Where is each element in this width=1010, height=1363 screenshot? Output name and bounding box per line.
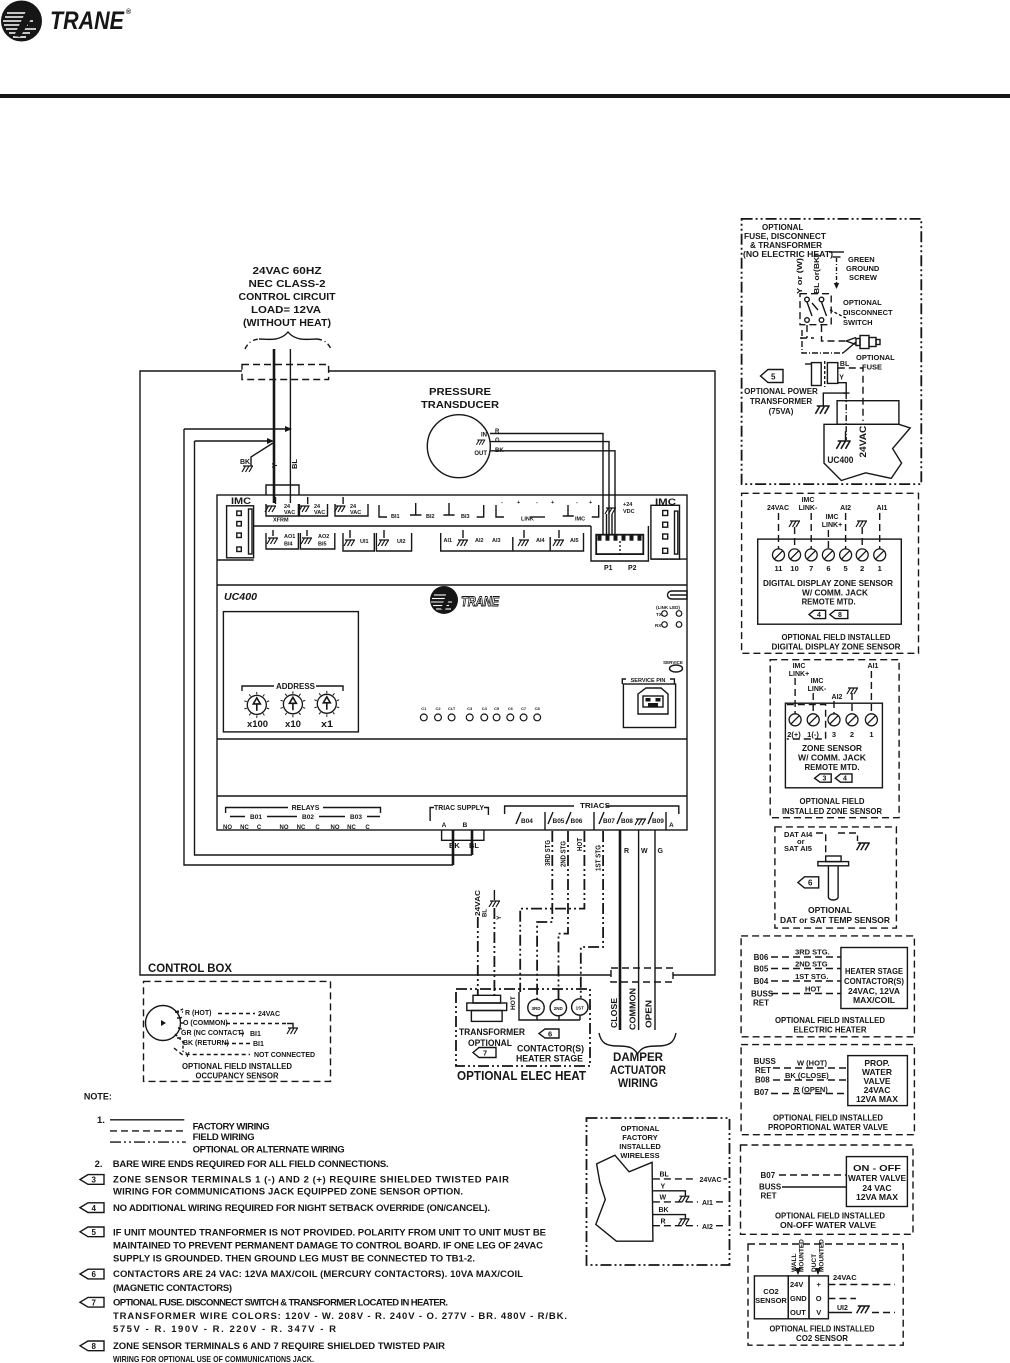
svg-text:G: G xyxy=(658,848,664,855)
svg-text:6: 6 xyxy=(548,1030,552,1039)
svg-text:Y: Y xyxy=(185,1052,190,1059)
svg-text:+: + xyxy=(589,500,592,506)
trane logo xyxy=(1,1,132,42)
svg-text:HOT: HOT xyxy=(805,985,821,994)
svg-text:LINK-: LINK- xyxy=(808,686,827,693)
svg-text:7: 7 xyxy=(809,564,813,573)
svg-text:XFRM: XFRM xyxy=(273,518,289,524)
wire BL to 24VAC xyxy=(653,1178,697,1180)
box2: digital display zone sensor xyxy=(742,493,919,653)
svg-text:RELAYS: RELAYS xyxy=(292,805,320,812)
svg-text:10: 10 xyxy=(790,564,798,573)
svg-text:REMOTE MTD.: REMOTE MTD. xyxy=(802,597,856,607)
svg-text:8: 8 xyxy=(92,1342,97,1351)
control box outline xyxy=(140,371,715,975)
svg-text:7: 7 xyxy=(92,1298,97,1307)
wire BK to gnd xyxy=(653,1215,686,1219)
svg-text:ZONE SENSOR: ZONE SENSOR xyxy=(802,743,862,753)
svg-text:NC: NC xyxy=(347,825,356,831)
LINK IMC group xyxy=(496,505,504,517)
svg-text:NC: NC xyxy=(297,825,306,831)
svg-text:NO: NO xyxy=(223,825,232,831)
svg-text:DISCONNECT: DISCONNECT xyxy=(843,308,893,317)
svg-text:P1: P1 xyxy=(604,565,613,572)
svg-text:6: 6 xyxy=(826,564,830,573)
svg-text:AI2: AI2 xyxy=(475,538,484,544)
svg-text:TX: TX xyxy=(656,612,662,617)
svg-text:BARE WIRE ENDS REQUIRED FO: BARE WIRE ENDS REQUIRED FOR ALL FIELD CO… xyxy=(113,1159,389,1170)
svg-text:TRANSDUCER: TRANSDUCER xyxy=(421,399,499,411)
brace under feed text xyxy=(259,332,317,339)
wire vert x194.5 xyxy=(195,441,473,855)
svg-text:INSTALLED: INSTALLED xyxy=(619,1142,661,1151)
svg-text:B08: B08 xyxy=(621,818,633,825)
svg-text:IN: IN xyxy=(481,433,487,439)
svg-text:C6: C6 xyxy=(508,706,514,711)
svg-text:+: + xyxy=(817,1280,822,1289)
svg-text:BK (CLOSE): BK (CLOSE) xyxy=(785,1071,829,1080)
optional fuse xyxy=(846,338,856,345)
feed dashed junction box xyxy=(242,365,329,380)
flag 7 xyxy=(80,1297,104,1307)
svg-text:C4: C4 xyxy=(482,706,488,711)
status LEDs xyxy=(420,706,540,721)
svg-text:-: - xyxy=(501,500,503,506)
svg-text:24V: 24V xyxy=(790,1280,803,1289)
wireless box xyxy=(587,1118,730,1265)
svg-text:R: R xyxy=(661,1219,666,1226)
svg-text:FUSE: FUSE xyxy=(862,363,882,372)
svg-text:MAX/COIL: MAX/COIL xyxy=(853,995,895,1005)
svg-text:GR (NC CONTACT): GR (NC CONTACT) xyxy=(181,1030,244,1037)
svg-text:DIGITAL DISPLAY ZONE SENSOR: DIGITAL DISPLAY ZONE SENSOR xyxy=(772,642,901,652)
svg-text:HOT: HOT xyxy=(510,996,517,1010)
svg-text:12VA MAX: 12VA MAX xyxy=(856,1192,898,1202)
svg-text:IF UNIT MOUNTED TRANFORMER: IF UNIT MOUNTED TRANFORMER IS NOT PROVID… xyxy=(113,1227,546,1238)
svg-text:BL: BL xyxy=(469,841,479,850)
svg-text:2ND STG: 2ND STG xyxy=(795,960,828,969)
svg-text:(LINK LED): (LINK LED) xyxy=(656,605,680,610)
wire R to AI2 xyxy=(653,1225,698,1227)
header bar xyxy=(0,94,1010,98)
svg-text:OUT: OUT xyxy=(790,1308,806,1317)
svg-text:OPTIONAL FIELD INSTALLED: OPTIONAL FIELD INSTALLED xyxy=(775,1015,885,1025)
transducer wires to P1 xyxy=(490,434,603,535)
svg-text:NOT CONNECTED: NOT CONNECTED xyxy=(254,1052,315,1059)
svg-text:UI2: UI2 xyxy=(397,539,406,545)
probe xyxy=(826,856,841,862)
svg-text:BL or(BK): BL or(BK) xyxy=(814,254,821,294)
svg-text:ZONE SENSOR TERMINALS 1 (-: ZONE SENSOR TERMINALS 1 (-) AND 2 (+) RE… xyxy=(113,1174,509,1185)
svg-text:C: C xyxy=(365,825,370,831)
svg-text:24VAC 60HZ: 24VAC 60HZ xyxy=(253,265,323,277)
svg-text:BI3: BI3 xyxy=(461,514,470,520)
svg-text:SCREW: SCREW xyxy=(849,273,878,282)
svg-text:MOUNTED: MOUNTED xyxy=(799,1239,806,1272)
svg-text:B04: B04 xyxy=(521,818,533,825)
svg-text:B09: B09 xyxy=(652,818,664,825)
svg-text:OPTIONAL OR ALTERNATE WIRIN: OPTIONAL OR ALTERNATE WIRING xyxy=(193,1144,345,1155)
svg-text:Y or (W): Y or (W) xyxy=(797,258,804,294)
svg-text:TRANE: TRANE xyxy=(50,7,125,35)
svg-text:SUPPLY IS GROUNDED. THEN G: SUPPLY IS GROUNDED. THEN GROUND LEG MUST… xyxy=(113,1253,475,1264)
row1 terminal: XFRM group xyxy=(265,497,635,524)
svg-text:3RD STG: 3RD STG xyxy=(545,840,552,866)
svg-text:BI1: BI1 xyxy=(250,1031,261,1038)
svg-text:B07: B07 xyxy=(761,1171,776,1180)
transformer T1 xyxy=(473,995,501,1003)
svg-text:11: 11 xyxy=(775,564,783,573)
svg-text:LOAD= 12VA: LOAD= 12VA xyxy=(251,304,321,316)
svg-text:AI4: AI4 xyxy=(536,538,546,544)
svg-text:AI2: AI2 xyxy=(840,505,851,512)
svg-text:1ST STG: 1ST STG xyxy=(596,845,603,871)
svg-text:3: 3 xyxy=(92,1176,97,1185)
BI1 BI2 BI3 terminals xyxy=(379,505,387,517)
svg-text:A: A xyxy=(442,822,447,829)
svg-text:(WITHOUT HEAT): (WITHOUT HEAT) xyxy=(243,317,331,329)
svg-text:OUT: OUT xyxy=(474,451,487,457)
svg-text:SAT AI5: SAT AI5 xyxy=(784,844,812,853)
svg-text:3: 3 xyxy=(823,776,827,783)
contactor circles xyxy=(528,999,544,1015)
svg-text:3RD: 3RD xyxy=(531,1006,541,1011)
svg-text:BK: BK xyxy=(449,841,460,850)
svg-text:x10: x10 xyxy=(285,719,301,729)
svg-text:NC: NC xyxy=(240,825,249,831)
BL/24vac dashed wire xyxy=(838,368,863,421)
svg-text:6: 6 xyxy=(92,1270,97,1279)
antenna polygon xyxy=(596,1155,653,1241)
svg-text:NO ADDITIONAL WIRING REQUIR: NO ADDITIONAL WIRING REQUIRED FOR NIGHT … xyxy=(113,1203,490,1214)
svg-text:5: 5 xyxy=(771,373,776,382)
svg-text:ACTUATOR: ACTUATOR xyxy=(610,1065,667,1077)
svg-text:OPTIONAL ELEC HEAT: OPTIONAL ELEC HEAT xyxy=(457,1069,586,1083)
svg-text:1ST: 1ST xyxy=(576,1006,585,1011)
svg-text:+24: +24 xyxy=(623,502,633,508)
svg-text:TRANSFORMER: TRANSFORMER xyxy=(459,1027,525,1038)
svg-text:B08: B08 xyxy=(755,1076,770,1085)
+24VDC xyxy=(605,508,616,514)
svg-text:COMMON: COMMON xyxy=(629,988,638,1030)
svg-text:2ND: 2ND xyxy=(554,1006,564,1011)
flag 8 xyxy=(80,1341,104,1351)
svg-text:BUSS: BUSS xyxy=(754,1057,777,1066)
address box xyxy=(223,612,358,732)
triacs strip xyxy=(505,803,679,830)
svg-text:PROPORTIONAL WATER VALVE: PROPORTIONAL WATER VALVE xyxy=(768,1122,888,1132)
svg-text:VAC: VAC xyxy=(350,510,361,516)
svg-text:(MAGNETIC CONTACTORS): (MAGNETIC CONTACTORS) xyxy=(113,1283,232,1294)
Y wire xyxy=(838,383,850,393)
svg-text:C: C xyxy=(315,825,320,831)
row2 terminals xyxy=(266,530,584,551)
svg-text:AI5: AI5 xyxy=(570,538,579,544)
svg-text:WIRELESS: WIRELESS xyxy=(620,1151,659,1160)
svg-text:1: 1 xyxy=(878,564,882,573)
svg-text:2.: 2. xyxy=(95,1159,103,1170)
svg-text:CONTACTORS ARE 24 VAC: 1: CONTACTORS ARE 24 VAC: 12VA MAX/COIL (ME… xyxy=(113,1269,523,1280)
svg-text:4: 4 xyxy=(92,1204,97,1213)
harness rect + blob xyxy=(837,401,899,425)
svg-text:TRANSFORMER WIRE COLORS:: TRANSFORMER WIRE COLORS: 120V - W. 208V … xyxy=(113,1311,567,1322)
trane logo small xyxy=(430,586,500,614)
wire BL stub xyxy=(471,830,474,855)
svg-text:P2: P2 xyxy=(628,565,637,572)
top strip divider rows xyxy=(254,525,591,527)
svg-text:CONTROL CIRCUIT: CONTROL CIRCUIT xyxy=(239,291,337,303)
wire W to AI1 xyxy=(653,1201,698,1203)
svg-text:Y: Y xyxy=(270,463,279,468)
svg-text:6: 6 xyxy=(808,879,813,888)
svg-text:A: A xyxy=(669,822,674,829)
svg-text:24VAC: 24VAC xyxy=(258,1011,280,1018)
svg-text:W: W xyxy=(660,1195,667,1202)
svg-text:24VAC: 24VAC xyxy=(475,890,482,916)
svg-text:BI1: BI1 xyxy=(253,1041,264,1048)
svg-text:1: 1 xyxy=(869,730,873,739)
svg-text:OPTIONAL FIELD INSTALLED: OPTIONAL FIELD INSTALLED xyxy=(182,1062,292,1071)
svg-text:B01: B01 xyxy=(250,814,262,821)
AI group xyxy=(441,533,584,551)
svg-text:UI1: UI1 xyxy=(360,539,369,545)
svg-text:O: O xyxy=(816,1294,822,1303)
svg-text:CONTROL BOX: CONTROL BOX xyxy=(148,963,232,975)
USB service port xyxy=(622,678,675,728)
svg-text:OPTIONAL: OPTIONAL xyxy=(808,905,852,915)
svg-text:IMC: IMC xyxy=(826,514,839,521)
svg-text:TRANE: TRANE xyxy=(461,594,500,609)
svg-text:-: - xyxy=(536,500,538,506)
svg-text:AO1: AO1 xyxy=(284,534,295,540)
svg-text:WIRING FOR OPTIONAL USE OF: WIRING FOR OPTIONAL USE OF COMMUNICATION… xyxy=(113,1355,314,1363)
flag 6 xyxy=(798,877,819,888)
relays strip xyxy=(223,805,381,831)
svg-text:R: R xyxy=(624,848,629,855)
box7: on-off water valve xyxy=(741,1145,914,1234)
green ground screw xyxy=(846,255,880,282)
svg-text:B05: B05 xyxy=(754,965,769,974)
svg-text:B04: B04 xyxy=(754,977,769,986)
svg-text:UI2: UI2 xyxy=(837,1305,848,1312)
svg-text:24VAC: 24VAC xyxy=(767,505,789,512)
svg-text:-: - xyxy=(576,500,578,506)
svg-text:PRESSURE: PRESSURE xyxy=(429,386,491,398)
svg-text:4: 4 xyxy=(817,612,821,619)
legend solid xyxy=(110,1119,184,1121)
right edge widgets xyxy=(655,591,687,672)
svg-text:C3: C3 xyxy=(467,706,473,711)
ground left xyxy=(823,393,847,406)
flag 6 xyxy=(80,1269,104,1279)
svg-text:V: V xyxy=(816,1308,821,1317)
svg-text:IMC: IMC xyxy=(811,678,824,685)
box5: electric heater xyxy=(741,936,914,1037)
svg-text:SWITCH: SWITCH xyxy=(843,318,873,327)
svg-text:Y: Y xyxy=(496,915,503,920)
svg-text:IMC: IMC xyxy=(793,663,806,670)
svg-text:LINK+: LINK+ xyxy=(822,522,842,529)
svg-text:VAC: VAC xyxy=(314,510,325,516)
box8: CO2 sensor xyxy=(748,1239,903,1345)
svg-text:BK (RETURN): BK (RETURN) xyxy=(183,1040,229,1047)
svg-text:BUSS: BUSS xyxy=(759,1183,782,1192)
svg-text:C: C xyxy=(257,825,262,831)
flag 7 xyxy=(473,1048,496,1058)
svg-text:CLOSE: CLOSE xyxy=(610,997,619,1028)
svg-text:FIELD WIRING: FIELD WIRING xyxy=(193,1132,255,1143)
24vac group 2 xyxy=(299,504,327,516)
svg-text:B07: B07 xyxy=(603,818,615,825)
svg-text:W: W xyxy=(641,848,648,855)
svg-text:BUSS: BUSS xyxy=(751,990,774,999)
svg-text:DAMPER: DAMPER xyxy=(613,1052,664,1064)
svg-text:DIGITAL DISPLAY ZONE SENSOR: DIGITAL DISPLAY ZONE SENSOR xyxy=(763,578,893,588)
svg-text:(75VA): (75VA) xyxy=(769,407,794,416)
UC400 outer box xyxy=(217,485,687,830)
wire BL xyxy=(289,349,291,503)
svg-text:+: + xyxy=(551,500,554,506)
svg-text:WATER VALVE: WATER VALVE xyxy=(848,1173,906,1183)
svg-text:GREEN: GREEN xyxy=(848,255,875,264)
svg-text:BK: BK xyxy=(240,459,250,466)
svg-text:HEATER STAGE: HEATER STAGE xyxy=(516,1054,583,1065)
svg-text:CONTACTOR(S): CONTACTOR(S) xyxy=(844,976,904,986)
wire Y (thick) xyxy=(273,349,276,503)
svg-text:AI1: AI1 xyxy=(877,505,888,512)
svg-text:IMC: IMC xyxy=(231,496,252,506)
svg-text:AI1: AI1 xyxy=(868,663,879,670)
svg-text:NO: NO xyxy=(280,825,289,831)
svg-text:SENSOR: SENSOR xyxy=(755,1296,787,1305)
svg-text:IMC: IMC xyxy=(575,517,585,523)
disconnect switch xyxy=(800,294,831,325)
optional elec heat box xyxy=(456,989,590,1066)
svg-text:INSTALLED ZONE SENSOR: INSTALLED ZONE SENSOR xyxy=(782,806,882,816)
svg-text:OPTIONAL POWER: OPTIONAL POWER xyxy=(744,387,818,396)
svg-text:TRANSFORMER: TRANSFORMER xyxy=(750,397,812,406)
left IMC connector xyxy=(217,496,254,560)
svg-text:AI1: AI1 xyxy=(702,1200,713,1207)
damper brace xyxy=(599,1033,676,1054)
svg-text:2(+): 2(+) xyxy=(787,730,801,739)
svg-text:AI2: AI2 xyxy=(832,694,843,701)
flag 4 xyxy=(80,1203,104,1213)
svg-text:AI2: AI2 xyxy=(702,1224,713,1231)
svg-text:3RD STG.: 3RD STG. xyxy=(795,948,830,957)
svg-text:OPTIONAL FIELD INSTALLED: OPTIONAL FIELD INSTALLED xyxy=(775,1211,885,1221)
svg-text:BL: BL xyxy=(840,361,850,368)
svg-text:MAINTAINED TO PREVENT PERMA: MAINTAINED TO PREVENT PERMANENT DAMAGE T… xyxy=(113,1240,543,1251)
svg-text:2ND STG: 2ND STG xyxy=(561,841,568,867)
box4: DAT/SAT temp sensor xyxy=(775,827,897,928)
svg-text:WIRING FOR COMMUNICATIONS J: WIRING FOR COMMUNICATIONS JACK EQUIPPED … xyxy=(113,1187,463,1198)
svg-text:O (COMMON): O (COMMON) xyxy=(183,1020,228,1027)
svg-text:CO2 SENSOR: CO2 SENSOR xyxy=(796,1333,848,1343)
svg-text:8: 8 xyxy=(838,612,842,619)
svg-text:B05: B05 xyxy=(553,818,565,825)
svg-text:BI5: BI5 xyxy=(318,542,327,548)
heat feed wires BL Y xyxy=(477,917,479,995)
svg-text:OPTIONAL FUSE. DISCONNECT S: OPTIONAL FUSE. DISCONNECT SWITCH & TRANS… xyxy=(113,1297,448,1308)
svg-text:OPTIONAL: OPTIONAL xyxy=(856,353,895,362)
svg-text:2: 2 xyxy=(860,564,864,573)
svg-text:IMC: IMC xyxy=(802,497,815,504)
occupancy sensor box xyxy=(144,981,331,1081)
svg-text:C1: C1 xyxy=(421,706,427,711)
svg-text:R (OPEN): R (OPEN) xyxy=(794,1085,828,1094)
svg-text:24VAC: 24VAC xyxy=(833,1273,857,1282)
power transformer icon xyxy=(812,363,822,386)
svg-text:WIRING: WIRING xyxy=(618,1078,658,1090)
svg-text:B06: B06 xyxy=(754,953,769,962)
svg-text:TRIAC SUPPLY: TRIAC SUPPLY xyxy=(434,805,484,812)
optional heat step wires xyxy=(520,831,584,992)
svg-text:ELECTRIC HEATER: ELECTRIC HEATER xyxy=(794,1025,867,1035)
svg-text:BK: BK xyxy=(659,1207,669,1214)
svg-text:x100: x100 xyxy=(247,719,268,729)
svg-text:2: 2 xyxy=(850,730,854,739)
svg-text:BI1: BI1 xyxy=(391,514,400,520)
24vac group 3 xyxy=(335,504,368,516)
svg-text:REMOTE MTD.: REMOTE MTD. xyxy=(805,762,860,772)
svg-text:BI2: BI2 xyxy=(426,514,435,520)
svg-text:W (HOT): W (HOT) xyxy=(797,1059,827,1068)
svg-text:Y: Y xyxy=(839,375,844,382)
svg-text:3: 3 xyxy=(832,730,836,739)
wire horiz y441 xyxy=(195,440,271,442)
svg-text:1ST STG.: 1ST STG. xyxy=(795,972,828,981)
svg-text:x1: x1 xyxy=(321,719,333,729)
svg-text:NO: NO xyxy=(331,825,340,831)
hot bus xyxy=(519,992,580,1020)
svg-text:FUSE, DISCONNECT: FUSE, DISCONNECT xyxy=(744,232,826,241)
svg-text:FACTORY: FACTORY xyxy=(622,1133,657,1142)
svg-text:4: 4 xyxy=(843,776,847,783)
svg-text:ADDRESS: ADDRESS xyxy=(276,682,316,691)
svg-text:BL: BL xyxy=(290,459,299,469)
svg-text:SERVICE PIN: SERVICE PIN xyxy=(631,678,666,684)
svg-text:B07: B07 xyxy=(754,1088,769,1097)
svg-text:24VAC: 24VAC xyxy=(858,425,868,458)
legend dash-dot-dot xyxy=(110,1141,186,1143)
svg-text:C2: C2 xyxy=(435,706,441,711)
right IMC connector xyxy=(651,497,687,559)
svg-text:B: B xyxy=(463,822,468,829)
wire horiz y429 xyxy=(184,428,288,430)
flag 5 xyxy=(80,1227,104,1237)
svg-text:OPTIONAL: OPTIONAL xyxy=(762,223,803,232)
svg-text:ZONE SENSOR TERMINALS 6 AN: ZONE SENSOR TERMINALS 6 AND 7 REQUIRE SH… xyxy=(113,1341,445,1352)
svg-text:VDC: VDC xyxy=(623,509,635,515)
svg-text:B03: B03 xyxy=(350,814,362,821)
box1: optional fuse/disconnect/transformer xyxy=(742,219,922,484)
svg-text:BL: BL xyxy=(660,1172,670,1179)
svg-text:5: 5 xyxy=(92,1228,97,1237)
svg-text:HOT: HOT xyxy=(577,837,584,851)
svg-text:OPTIONAL FIELD INSTALLED: OPTIONAL FIELD INSTALLED xyxy=(782,632,891,642)
svg-text:GND: GND xyxy=(790,1294,807,1303)
svg-text:BI4: BI4 xyxy=(284,542,294,548)
svg-text:575V - R. 190V - R. 220V: 575V - R. 190V - R. 220V - R. 347V - R xyxy=(113,1324,336,1335)
box3: zone sensor xyxy=(770,660,899,818)
svg-text:7: 7 xyxy=(483,1049,487,1058)
svg-text:C7: C7 xyxy=(521,706,527,711)
svg-text:ON - OFF: ON - OFF xyxy=(853,1163,901,1173)
svg-text:HEATER STAGE: HEATER STAGE xyxy=(845,966,903,976)
svg-text:OPTIONAL FIELD INSTALLED: OPTIONAL FIELD INSTALLED xyxy=(770,1324,875,1334)
svg-text:OPTIONAL: OPTIONAL xyxy=(843,298,882,307)
